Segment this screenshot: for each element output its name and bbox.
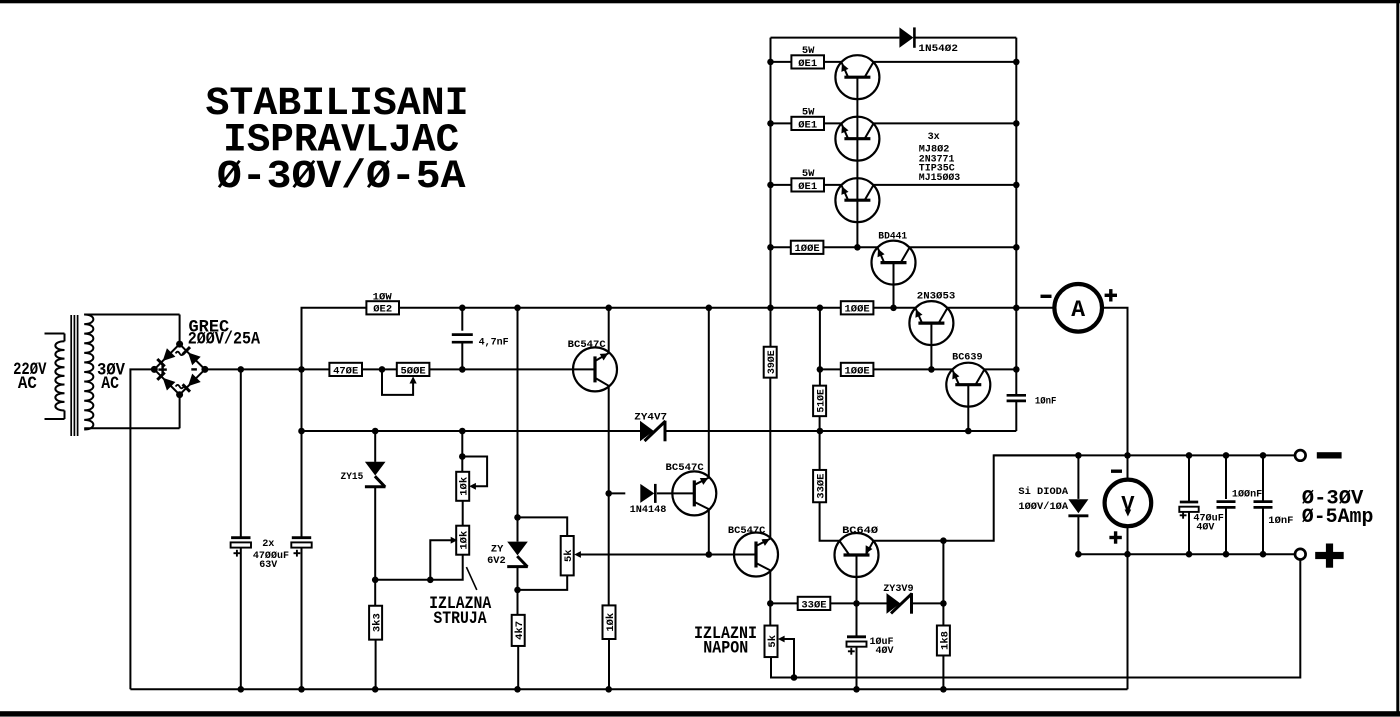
resistor 100E (row5) (841, 301, 874, 316)
potentiometer 10k lower (456, 526, 470, 555)
wire right rail top (1015, 38, 1017, 395)
node ZY3V9 row x770 (767, 600, 774, 607)
node row6 right rail (1013, 366, 1020, 373)
node row5 x517 (514, 305, 521, 312)
node row7 x819 (817, 428, 824, 435)
wire row2 resistor to emitter (824, 122, 842, 124)
ammeter A (1054, 284, 1102, 332)
svg-text:1ØØE: 1ØØE (845, 365, 870, 377)
wire 10uF to rail A (856, 648, 858, 690)
pot 10k upper bypass (462, 457, 487, 490)
svg-text:1k8: 1k8 (939, 631, 951, 650)
terminal minus output (1295, 450, 1306, 461)
svg-text:2N3Ø53: 2N3Ø53 (917, 291, 956, 303)
svg-text:5k: 5k (767, 635, 779, 648)
capacitor C2 4700uF (291, 538, 311, 548)
svg-text:ØE1: ØE1 (798, 181, 817, 193)
node railA x241 (238, 686, 245, 693)
label Si DIODA 100V/10A (1018, 486, 1068, 513)
node 1k8 top (940, 600, 947, 607)
node row2 left rail (767, 120, 774, 127)
voltmeter minus mark (1111, 470, 1122, 473)
plus mark 470uF (1180, 512, 1187, 519)
label 10nF (output) (1268, 515, 1293, 527)
svg-text:AC: AC (101, 374, 119, 394)
wire 1N4148 to Q2 base (657, 492, 694, 494)
wire row1 collector to right rail (873, 61, 1016, 63)
label 5W (row2) (802, 107, 815, 119)
resistor 0E2 10W (366, 301, 399, 316)
wire power base chain (856, 77, 858, 247)
wire 5k bottom loop (771, 657, 794, 678)
diode Si DIODA 100V/10A (1068, 455, 1088, 554)
node row7 x301 (298, 428, 305, 435)
wire voltmeter column bottom (1127, 526, 1129, 554)
svg-text:Si DIODA: Si DIODA (1018, 486, 1068, 498)
label 30V AC (secondary) (97, 360, 125, 394)
node railA x301 (298, 686, 305, 693)
label 0-30V 0-5Amp (1302, 488, 1374, 530)
node row5 x819 (817, 305, 824, 312)
svg-text:ZY4V7: ZY4V7 (634, 412, 667, 424)
svg-text:1N4148: 1N4148 (630, 504, 667, 516)
wire Q2 collector down (708, 509, 710, 554)
trimmer 500E wiper (382, 369, 417, 395)
svg-text:NAPON: NAPON (703, 639, 748, 659)
resistor 3k3 (369, 606, 383, 640)
wire row3 left (771, 184, 792, 186)
resistor 390E (764, 347, 778, 378)
wire row1 resistor to emitter (824, 61, 842, 63)
wire Q3 collector down (769, 570, 771, 603)
label BD441 (878, 231, 907, 243)
label 10W (373, 291, 393, 303)
wire BC639 collector to right rail (984, 368, 1016, 370)
wire x819 row5 to row6 (819, 308, 821, 370)
node minus rail x1226 (1223, 452, 1230, 459)
svg-text:2ØØV/25A: 2ØØV/25A (188, 330, 261, 350)
resistor 0E1 5W (row2) (791, 117, 824, 132)
diode 1N4148 (609, 484, 656, 503)
plus mark C2 (294, 550, 301, 557)
resistor 10k (x608) (603, 605, 617, 639)
node row5 x770 (767, 305, 774, 312)
wire row7 to pot chain (461, 431, 463, 472)
node 5k wiper junction (791, 674, 798, 681)
node row6 x462 (459, 366, 466, 373)
zener ZY4V7 (640, 421, 666, 442)
voltmeter plus mark (1109, 531, 1121, 543)
svg-text:5ØØE: 5ØØE (401, 365, 426, 377)
node Q3 base rail x708 (706, 551, 713, 558)
label BC640 (842, 525, 879, 537)
label 4,7nF (479, 336, 509, 348)
wire 1k8 to rail A (942, 656, 944, 690)
label 100nF (1232, 489, 1262, 501)
wire power bank left rail (770, 38, 772, 347)
wire 4.7nF column top (461, 308, 463, 331)
transformer T1 primary winding (45, 334, 65, 420)
wire row4 collector to right rail (909, 246, 1016, 248)
wire secondary top to bridge (179, 315, 181, 345)
node base chain row4 (854, 244, 861, 251)
label 5W (row3) (802, 168, 815, 180)
label BC547C (Q2) (666, 462, 705, 474)
node row7 x968 (965, 428, 972, 435)
page bottom border bar (0, 711, 1400, 716)
output plus symbol (1315, 544, 1344, 568)
page right border (1396, 0, 1399, 714)
wire cap2 column up to row5 (302, 308, 367, 370)
wire BC640 emitter to x943 (873, 540, 943, 542)
svg-text:A: A (1071, 297, 1085, 323)
svg-text:ZY3V9: ZY3V9 (883, 583, 913, 595)
wire bridge plus down-left (130, 369, 153, 689)
svg-text:ZY: ZY (491, 544, 504, 556)
page top border bar (0, 0, 1400, 3)
pot 10k lower wiper (430, 537, 457, 580)
label IZLAZNI NAPON (694, 624, 757, 659)
resistor 100E (row4) (791, 241, 824, 256)
wire 3k3 column (374, 580, 376, 606)
node ZY6V2 bottom (514, 587, 521, 594)
label 2x 4700uF 63V (253, 538, 289, 571)
wire ammeter to minus rail (1102, 308, 1127, 456)
resistor 100E (row6) (841, 363, 874, 378)
wire row2 collector to right rail (873, 122, 1016, 124)
wire 4k7 to rail A (517, 646, 519, 689)
node plus rail x1189 (1186, 551, 1193, 558)
capacitor 10nF (output) (1254, 455, 1273, 554)
wire 10k to rail A (608, 639, 610, 689)
resistor 0E1 5W (row3) (791, 178, 824, 193)
wire cap2 column down (301, 369, 303, 689)
svg-text:1N54Ø2: 1N54Ø2 (918, 43, 958, 55)
label ZY4V7 (634, 412, 667, 424)
label GREC 200V/25A (188, 317, 261, 349)
wire bottom rail A (130, 688, 1127, 690)
ammeter minus mark (1041, 295, 1052, 298)
zener ZY3V9 (887, 593, 913, 614)
zener ZY15 (365, 431, 386, 580)
node row6 x382 (379, 366, 386, 373)
svg-text:1ØnF: 1ØnF (1268, 515, 1293, 527)
node minus rail x1127 (1124, 452, 1131, 459)
label 10uF 40V (870, 636, 895, 657)
node plus rail x1127 (1124, 551, 1131, 558)
wire row3 collector to right rail (873, 184, 1016, 186)
label ZY 6V2 (487, 544, 506, 568)
wire 3k3 to rail A (375, 640, 377, 690)
svg-text:2x: 2x (262, 538, 275, 550)
node pot1 bypass top (459, 453, 466, 460)
transistor Q3 BC547C (734, 533, 778, 577)
wire row1 left (771, 61, 792, 63)
svg-text:1ØØnF: 1ØØnF (1232, 489, 1262, 501)
wire row5 segment (399, 307, 841, 309)
resistor 330E (ZY3V9 row) (798, 597, 831, 612)
svg-text:5W: 5W (802, 107, 815, 119)
svg-text:1Øk: 1Øk (605, 613, 617, 632)
node railA x608 (605, 686, 612, 693)
svg-text:BC64Ø: BC64Ø (842, 525, 879, 537)
node minus rail x1078 (1075, 452, 1082, 459)
svg-text:4ØV: 4ØV (876, 645, 895, 657)
svg-text:4k7: 4k7 (514, 621, 526, 640)
wire ZY3V9 row to 5k pot (769, 603, 771, 625)
capacitor 10nF (right rail) (1007, 395, 1026, 401)
zener ZY 6V2 (507, 517, 528, 590)
output minus symbol (1317, 452, 1342, 458)
node minus rail x1263 (1260, 452, 1267, 459)
svg-text:BD441: BD441 (878, 231, 907, 243)
wire BC640 base down (856, 555, 858, 603)
svg-text:1Øk: 1Øk (459, 477, 471, 496)
wire 2N3053 collector to right rail (947, 307, 1054, 309)
node row3 left rail (767, 182, 774, 189)
capacitor 100nF (1217, 455, 1236, 554)
title line 1 (206, 82, 469, 127)
label ZY15 (341, 471, 364, 483)
node railA x517 (514, 686, 521, 693)
pot 5k output wiper (778, 636, 794, 678)
capacitor 4,7nF (452, 335, 473, 343)
wire x943 column (942, 541, 944, 626)
svg-text:ØE1: ØE1 (798, 58, 817, 70)
svg-text:1ØØE: 1ØØE (795, 243, 820, 255)
node 10uF top (853, 600, 860, 607)
svg-text:STRUJA: STRUJA (433, 609, 487, 629)
wire 390E to Q3 emitter (769, 378, 771, 539)
svg-text:47ØE: 47ØE (333, 365, 358, 377)
wire Q1 emitter up to row5 (608, 308, 610, 353)
wire 330E to BC640 collector (820, 502, 840, 541)
wire row4 left (771, 246, 792, 248)
wire voltmeter column top (1127, 455, 1129, 479)
label ZY3V9 (883, 583, 913, 595)
resistor 330E (x819) (813, 470, 827, 502)
svg-text:33ØE: 33ØE (816, 473, 828, 498)
wire row6 right segment a (820, 368, 841, 370)
svg-text:BC639: BC639 (952, 352, 983, 364)
wire 510E to row7 (819, 416, 821, 431)
svg-text:Ø-3ØV/Ø-5A: Ø-3ØV/Ø-5A (217, 155, 466, 200)
svg-text:Ø-5Amp: Ø-5Amp (1302, 506, 1374, 529)
node row6 x241 (238, 366, 245, 373)
svg-text:1ØØE: 1ØØE (845, 304, 870, 316)
svg-text:51ØE: 51ØE (816, 389, 828, 413)
resistor 1k8 (937, 626, 951, 656)
wire 10uF column (856, 603, 858, 635)
label 1N5402 (918, 43, 958, 55)
capacitor 470uF 40V (1179, 455, 1198, 554)
svg-text:5k: 5k (563, 549, 575, 562)
wire 330E to 10uF node (831, 602, 857, 604)
node row6 x301 (298, 366, 305, 373)
label BC547C (Q3) (728, 525, 766, 537)
wire top rail (771, 37, 1017, 39)
capacitor C1 4700uF (231, 538, 251, 548)
wire 4.7nF column bottom (461, 342, 463, 369)
wire rail B to plus terminal (794, 560, 1300, 678)
node plus rail x1078 (1075, 551, 1082, 558)
wire row7 left segment (302, 430, 641, 432)
svg-text:ØE1: ØE1 (798, 119, 817, 131)
title line 3 (217, 155, 466, 200)
wire right rail bottom (1015, 401, 1017, 431)
wire pot2 bottom jog (375, 555, 463, 580)
wire row7 right segment (665, 430, 1016, 432)
svg-text:33ØE: 33ØE (801, 599, 826, 611)
node row5 right rail (1013, 305, 1020, 312)
label 220V AC (primary) (13, 360, 47, 394)
svg-text:4,7nF: 4,7nF (479, 336, 509, 348)
wire minus rail (994, 454, 1295, 456)
transistor Q2 BC547C (672, 471, 716, 515)
label 1N4148 (630, 504, 667, 516)
svg-text:BC547C: BC547C (666, 462, 705, 474)
label 2N3053 (917, 291, 956, 303)
svg-text:1Øk: 1Øk (459, 531, 471, 550)
node row4 left rail (767, 244, 774, 251)
node row1 left rail (767, 59, 774, 66)
node row5 x608 (605, 305, 612, 312)
svg-text:6V2: 6V2 (487, 555, 506, 567)
wire Q1 collector down (608, 386, 610, 494)
svg-text:3x: 3x (928, 131, 941, 143)
wire 5k top jog (518, 517, 568, 536)
node minus rail x1189 (1186, 452, 1193, 459)
wire x517 column (517, 308, 519, 518)
svg-text:5W: 5W (802, 168, 815, 180)
node row6 x819 (817, 366, 824, 373)
wire x943 to minus rail riser (943, 455, 1078, 540)
label BC547C (Q1) (568, 339, 607, 351)
label BC639 (952, 352, 983, 364)
wire row3 resistor to emitter (824, 184, 842, 186)
wire voltmeter column to rail A (1127, 554, 1129, 689)
label 5W (row1) (802, 45, 815, 57)
wire BD441 base down (893, 263, 895, 308)
wire row7 to 330E (819, 431, 821, 470)
wire 500E to Q1 base (429, 368, 595, 370)
transformer T1 secondary winding (84, 315, 179, 430)
resistor 510E (813, 386, 827, 417)
label 3x transistor types (919, 131, 960, 184)
wire ZY3V9 to 1k8 column (912, 602, 944, 604)
node plus rail x1263 (1260, 551, 1267, 558)
wire ZY3V9 row left (770, 602, 797, 604)
node 2N3053 base row6 (928, 366, 935, 373)
resistor 4k7 (512, 615, 526, 646)
wire base rail to Q3 (709, 554, 756, 556)
wire to ZY3V9 (857, 602, 888, 604)
svg-text:MJ15ØØ3: MJ15ØØ3 (919, 172, 960, 184)
potentiometer 5k (reference) (561, 536, 575, 575)
transistor Q1 BC547C (573, 347, 617, 391)
voltmeter V (1105, 480, 1152, 527)
svg-text:1ØW: 1ØW (373, 291, 393, 303)
wire row4 middle (823, 246, 878, 248)
potentiometer 10k upper (456, 472, 470, 501)
transistor 2N3053 (909, 301, 953, 345)
svg-text:39ØE: 39ØE (766, 350, 778, 374)
potentiometer 5k IZLAZNI NAPON (765, 626, 779, 658)
callout line izlazna struja (466, 567, 476, 590)
node row7 x462 (459, 428, 466, 435)
wire pot1 to pot2 (462, 501, 464, 526)
wire 2N3053 base down (930, 323, 932, 369)
node railA x943 (940, 686, 947, 693)
wire cap1 column (240, 369, 242, 689)
svg-text:5W: 5W (802, 45, 815, 57)
node row2 right rail (1013, 120, 1020, 127)
node x430 y579 (427, 577, 434, 584)
plus mark 10uF (848, 648, 855, 655)
terminal plus output (1295, 549, 1306, 560)
wire 4k7 column (517, 590, 519, 615)
node railA x375 (372, 686, 379, 693)
wire secondary bottom to bridge (179, 395, 181, 429)
label 10nF (right rail) (1035, 396, 1057, 408)
node row5 x708 (706, 305, 713, 312)
node ZY6V2 top (514, 514, 521, 521)
wire row5 to 2N3053 (873, 307, 916, 309)
plus mark C1 (234, 550, 241, 557)
svg-text:BC547C: BC547C (568, 339, 607, 351)
node row1 right rail (1013, 59, 1020, 66)
svg-text:1ØØV/1ØA: 1ØØV/1ØA (1018, 501, 1068, 513)
wire right rail to 10nF (1015, 393, 1017, 395)
node BC640 emitter x943 (940, 537, 947, 544)
transformer T1 core (71, 315, 77, 436)
svg-text:4ØV: 4ØV (1196, 522, 1215, 534)
wire row6 to 510E (819, 369, 821, 385)
wire row2 left (771, 122, 792, 124)
ammeter plus mark (1105, 289, 1117, 301)
node row5 x462 (459, 305, 466, 312)
node row3 right rail (1013, 182, 1020, 189)
node BD441 base row5 (890, 305, 897, 312)
pot 5k wiper to base rail (574, 551, 709, 558)
svg-text:ZY15: ZY15 (341, 471, 364, 483)
svg-text:63V: 63V (259, 559, 278, 571)
transistor BC639 (946, 363, 990, 407)
label IZLAZNA STRUJA (429, 594, 492, 629)
title line 2 (223, 119, 459, 164)
bridge rectifier GREC (151, 341, 209, 399)
node railA x856 (853, 686, 860, 693)
svg-text:1ØnF: 1ØnF (1035, 396, 1057, 408)
node x375 y579 (372, 577, 379, 584)
svg-text:AC: AC (18, 374, 37, 394)
svg-text:ØE2: ØE2 (373, 304, 392, 316)
node 1N4148 anode (605, 490, 612, 497)
wire 470E to 500E (362, 368, 397, 370)
wire bridge minus to 470E (205, 368, 330, 370)
trimmer 500E (397, 363, 430, 378)
resistor 0E1 5W (row1) (791, 55, 824, 70)
svg-text:3k3: 3k3 (372, 613, 384, 632)
label 470uF 40V (1193, 513, 1223, 534)
transistor BC640 (PNP) (835, 533, 879, 577)
wire Q2 emitter up to row5 (708, 308, 710, 478)
resistor 470E (329, 363, 362, 378)
capacitor 10uF 40V (847, 637, 867, 647)
diode 1N5402 (899, 27, 914, 47)
transistor BD441 (872, 241, 916, 285)
node row4 right rail (1013, 244, 1020, 251)
